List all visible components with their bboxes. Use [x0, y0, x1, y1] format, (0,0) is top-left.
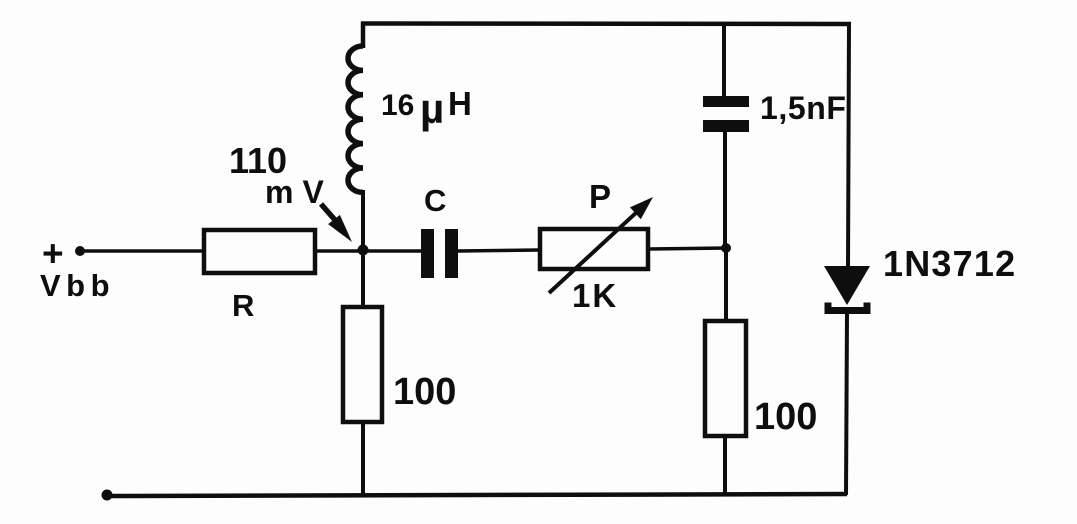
capacitor C [421, 229, 458, 278]
inductor L 16uH [348, 22, 363, 252]
wire: right branch from top bus to diode [848, 23, 849, 268]
terminal dot Vbb [75, 246, 85, 256]
wire: top bus from inductor top to right branch [361, 21, 851, 26]
svg-text:R: R [232, 288, 254, 323]
wire: R2 to bottom bus [723, 436, 727, 496]
node: junction P / C2 / R2 [721, 243, 731, 253]
svg-text:1K: 1K [572, 277, 618, 314]
svg-text:16: 16 [381, 89, 414, 122]
svg-text:µ: µ [420, 85, 444, 132]
resistor R1 100 (left) [343, 307, 382, 422]
wire: node down to resistor R2 [724, 248, 728, 321]
wire: diode to bottom bus [846, 314, 847, 495]
bottom bus wire [106, 494, 847, 496]
svg-text:Vbb: Vbb [40, 268, 115, 303]
annotation arrow pointing to node [321, 204, 352, 242]
svg-text:H: H [448, 85, 472, 122]
svg-text:1,5nF: 1,5nF [760, 90, 847, 126]
capacitor C2 1,5nF [703, 96, 749, 132]
svg-text:C: C [424, 183, 446, 218]
svg-text:P: P [589, 178, 611, 215]
tunnel diode D1 cathode bar [828, 303, 867, 311]
wire: top bus down to capacitor 1,5nF [722, 23, 726, 99]
svg-text:1N3712: 1N3712 [883, 243, 1016, 284]
wire: Vbb terminal to resistor R [80, 249, 204, 253]
resistor R2 100 (right) [705, 321, 746, 436]
wire: C2 down to node [723, 129, 727, 248]
resistor R [204, 230, 315, 273]
terminal dot bottom-left [102, 490, 113, 501]
node: junction at 110mV (L / R / C / R1) [358, 245, 369, 256]
wire: node1 down to resistor R1 [361, 250, 365, 307]
svg-text:100: 100 [393, 371, 456, 413]
potentiometer P 1K [540, 197, 653, 293]
wire: P to right node [648, 248, 728, 249]
svg-text:100: 100 [754, 396, 817, 438]
wire: R1 to bottom bus [361, 422, 365, 497]
tunnel diode D1 anode triangle [824, 266, 870, 305]
wire: R to capacitor C [315, 249, 421, 253]
wire: C to potentiometer P [458, 250, 540, 251]
